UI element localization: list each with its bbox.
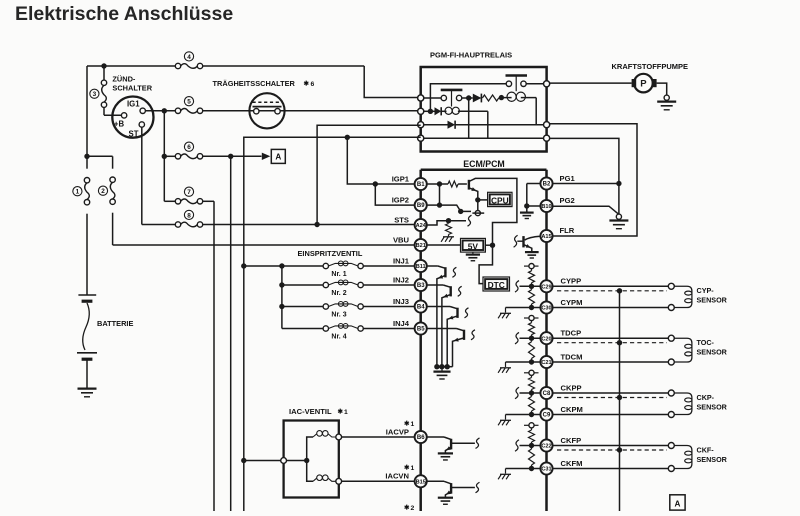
svg-text:B1: B1: [417, 182, 425, 188]
svg-text:✱: ✱: [404, 421, 409, 428]
svg-text:Nr. 2: Nr. 2: [331, 290, 346, 297]
svg-text:IACVN: IACVN: [385, 472, 409, 481]
svg-text:INJ1: INJ1: [393, 256, 410, 265]
svg-text:INJ3: INJ3: [393, 297, 409, 306]
svg-text:IACVP: IACVP: [386, 427, 409, 436]
svg-text:INJ2: INJ2: [393, 275, 409, 284]
svg-text:SCHALTER: SCHALTER: [112, 83, 152, 92]
svg-text:CKPP: CKPP: [561, 383, 582, 392]
svg-text:B5: B5: [417, 327, 425, 333]
svg-text:PGM-FI-HAUPTRELAIS: PGM-FI-HAUPTRELAIS: [430, 50, 512, 59]
svg-text:TDCM: TDCM: [561, 352, 583, 361]
svg-text:5V: 5V: [468, 241, 479, 251]
svg-text:B21: B21: [416, 243, 426, 249]
svg-text:PG1: PG1: [560, 174, 576, 183]
svg-text:1: 1: [411, 421, 415, 428]
svg-text:CKP-: CKP-: [697, 393, 715, 402]
svg-text:8: 8: [187, 212, 191, 219]
svg-text:C30: C30: [541, 306, 551, 312]
svg-text:SENSOR: SENSOR: [697, 455, 728, 464]
svg-text:INJ4: INJ4: [393, 319, 410, 328]
svg-text:A15: A15: [541, 234, 551, 240]
svg-text:IAC-VENTIL: IAC-VENTIL: [289, 407, 332, 416]
svg-text:A24: A24: [416, 223, 427, 229]
svg-text:✱: ✱: [338, 409, 343, 416]
svg-text:TRÄGHEITSSCHALTER: TRÄGHEITSSCHALTER: [213, 79, 296, 88]
svg-text:SENSOR: SENSOR: [697, 296, 728, 305]
svg-text:ST: ST: [129, 130, 139, 139]
svg-text:ZÜND-: ZÜND-: [112, 74, 136, 83]
svg-text:KRAFTSTOFFPUMPE: KRAFTSTOFFPUMPE: [612, 62, 689, 71]
svg-text:2: 2: [411, 505, 415, 511]
svg-text:CYP-: CYP-: [697, 286, 715, 295]
svg-text:5: 5: [187, 99, 191, 106]
svg-text:B11: B11: [416, 264, 426, 270]
svg-text:C21: C21: [541, 360, 551, 366]
svg-text:Nr. 4: Nr. 4: [331, 334, 346, 341]
svg-text:3: 3: [93, 91, 97, 98]
svg-text:2: 2: [101, 188, 105, 195]
svg-text:6: 6: [311, 81, 315, 88]
svg-text:CKFP: CKFP: [561, 436, 582, 445]
svg-text:C9: C9: [543, 413, 551, 419]
svg-text:IG1: IG1: [127, 99, 140, 108]
svg-text:B2: B2: [543, 182, 551, 188]
svg-text:B3: B3: [417, 283, 425, 289]
svg-text:ECM/PCM: ECM/PCM: [463, 159, 505, 169]
svg-text:CPU: CPU: [491, 195, 509, 205]
svg-text:PG2: PG2: [560, 196, 575, 205]
svg-text:P: P: [640, 79, 647, 90]
svg-text:Nr. 3: Nr. 3: [331, 312, 346, 319]
svg-text:BATTERIE: BATTERIE: [97, 319, 133, 328]
svg-text:CYPM: CYPM: [561, 298, 583, 307]
svg-text:A: A: [275, 153, 281, 162]
svg-text:A: A: [674, 499, 680, 508]
svg-text:1: 1: [411, 465, 415, 472]
svg-text:1: 1: [344, 409, 348, 416]
svg-text:CKFM: CKFM: [561, 459, 583, 468]
svg-text:IGP2: IGP2: [392, 196, 409, 205]
svg-text:C20: C20: [541, 336, 551, 342]
svg-text:C31: C31: [541, 467, 551, 473]
svg-text:+B: +B: [114, 119, 125, 128]
svg-text:DTC: DTC: [488, 280, 505, 290]
svg-text:✱: ✱: [304, 80, 310, 88]
svg-text:B4: B4: [417, 305, 425, 311]
svg-text:SENSOR: SENSOR: [697, 402, 728, 411]
svg-text:C29: C29: [541, 284, 551, 290]
svg-text:VBU: VBU: [393, 235, 410, 244]
svg-text:6: 6: [187, 144, 191, 151]
svg-text:7: 7: [187, 189, 191, 196]
svg-text:B10: B10: [541, 204, 551, 210]
svg-text:CYPP: CYPP: [561, 277, 582, 286]
svg-text:✱: ✱: [404, 505, 409, 511]
svg-text:CKPM: CKPM: [561, 405, 583, 414]
svg-text:B9: B9: [417, 203, 425, 209]
svg-text:Elektrische Anschlüsse: Elektrische Anschlüsse: [15, 3, 233, 25]
svg-text:B15: B15: [416, 479, 426, 485]
svg-text:C8: C8: [543, 391, 551, 397]
svg-text:CKF-: CKF-: [697, 445, 715, 454]
svg-text:FLR: FLR: [560, 226, 575, 235]
svg-text:B6: B6: [417, 435, 425, 441]
svg-text:TDCP: TDCP: [561, 329, 582, 338]
svg-text:4: 4: [187, 54, 191, 61]
svg-text:TOC-: TOC-: [697, 338, 715, 347]
svg-text:C22: C22: [541, 444, 551, 450]
svg-text:✱: ✱: [404, 465, 409, 472]
svg-text:EINSPRITZVENTIL: EINSPRITZVENTIL: [298, 249, 363, 258]
svg-text:1: 1: [76, 189, 80, 196]
svg-text:IGP1: IGP1: [392, 174, 410, 183]
svg-text:STS: STS: [394, 215, 409, 224]
svg-text:SENSOR: SENSOR: [697, 348, 728, 357]
svg-text:Nr. 1: Nr. 1: [331, 271, 346, 278]
